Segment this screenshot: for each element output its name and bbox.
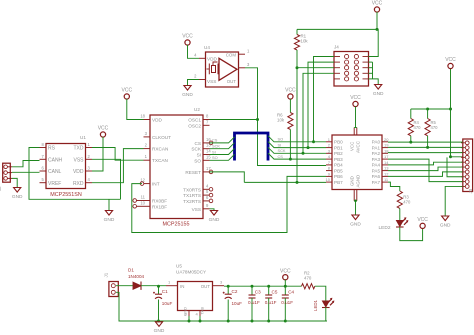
label SO right [278, 137, 284, 142]
wire D1 to U5 IN [141, 285, 166, 287]
svg-text:TAB: TAB [200, 307, 205, 315]
svg-text:10uF: 10uF [162, 301, 173, 306]
svg-text:VCC: VCC [122, 88, 133, 94]
svg-text:U2: U2 [194, 107, 200, 112]
svg-text:C2: C2 [232, 289, 238, 294]
svg-text:CLKOUT: CLKOUT [152, 135, 171, 140]
resistor R1 10k [294, 29, 308, 50]
svg-text:VSS: VSS [207, 79, 216, 84]
capacitor C4 0.1uF [281, 286, 294, 321]
svg-text:VREF: VREF [48, 181, 61, 187]
svg-text:15: 15 [206, 154, 211, 159]
wire PA6 to J3.7 [388, 172, 463, 177]
svg-text:VCC: VCC [349, 142, 354, 151]
wire VCC to rail [284, 280, 286, 287]
svg-text:GND: GND [12, 194, 23, 200]
svg-text:U5: U5 [176, 264, 182, 269]
svg-text:470: 470 [304, 276, 312, 281]
svg-text:0.u1F: 0.u1F [265, 300, 277, 305]
wire R4R5 rail [411, 108, 451, 110]
capacitor C2 10uF [223, 286, 242, 321]
svg-text:13: 13 [206, 143, 211, 148]
svg-text:13: 13 [384, 166, 389, 171]
wire RS to ground [29, 148, 121, 200]
svg-text:J2: J2 [0, 186, 2, 191]
svg-text:TX0RTS: TX0RTS [183, 187, 201, 192]
ground J4 [373, 85, 384, 97]
svg-text:GND: GND [349, 176, 354, 186]
svg-text:J4: J4 [334, 45, 339, 50]
svg-text:OUT: OUT [227, 79, 237, 84]
svg-text:VCC: VCC [285, 88, 296, 94]
regulator U5 UA78M05DCY [166, 264, 224, 317]
svg-text:PA2: PA2 [372, 151, 381, 156]
connector J2 [0, 163, 12, 191]
svg-text:VDD: VDD [207, 57, 218, 62]
wire VCC to U4 VDD [188, 45, 200, 59]
svg-text:GND: GND [350, 221, 361, 227]
junction J4 PB1 [307, 146, 310, 149]
capacitor C1 10uF [153, 286, 172, 321]
junction rail C2 [227, 320, 230, 323]
svg-text:CANH: CANH [48, 158, 63, 164]
wire LED2 to VCC [400, 227, 423, 241]
ground J2 [12, 188, 23, 200]
wire U2 RESET jog [210, 172, 245, 183]
wire U1 VSS down [92, 159, 121, 199]
wire R4 to PA0 [410, 136, 412, 142]
svg-text:SCK: SCK [212, 144, 220, 149]
svg-text:C1: C1 [162, 289, 168, 294]
wire bus to U3 PB0-PB3 [268, 136, 326, 159]
wire OUT rail [224, 285, 302, 287]
svg-text:470: 470 [414, 125, 422, 130]
wire U4 VSS to ground [188, 80, 200, 86]
svg-text:14: 14 [384, 160, 389, 165]
svg-text:12: 12 [140, 178, 145, 183]
svg-text:PB1: PB1 [334, 145, 343, 150]
svg-text:14: 14 [206, 149, 211, 154]
wire VCC to U3 [354, 107, 357, 128]
wire R3 to LED2 [399, 208, 401, 220]
vcc U2 [122, 88, 133, 100]
ground main [154, 322, 165, 334]
svg-text:VDD: VDD [152, 118, 163, 123]
wire R1 down to RESET row [296, 50, 298, 182]
svg-text:RXD: RXD [73, 181, 84, 187]
wire J3.8 stub [447, 157, 463, 176]
vcc U3 [350, 95, 361, 107]
svg-text:PB7: PB7 [334, 180, 343, 185]
svg-text:LED1: LED1 [313, 299, 318, 311]
vcc top rail [372, 1, 383, 13]
vcc R6 [285, 88, 296, 100]
svg-text:RESET: RESET [185, 170, 201, 175]
ground U4 [182, 86, 193, 98]
junction rail C4 [284, 320, 287, 323]
svg-text:VCC: VCC [417, 217, 428, 223]
svg-text:RX1BF: RX1BF [152, 204, 167, 209]
svg-text:PB5: PB5 [334, 168, 343, 173]
junction J4 PB2 [302, 152, 305, 155]
svg-text:10: 10 [326, 177, 331, 182]
junction C5 top [267, 285, 270, 288]
junction VCC J3 row [449, 155, 452, 158]
wire PA5 to J3.6 [388, 167, 463, 171]
svg-text:U1: U1 [80, 135, 86, 140]
svg-text:VDD: VDD [73, 169, 84, 175]
svg-text:VSS: VSS [192, 207, 201, 212]
svg-text:SI: SI [212, 149, 216, 154]
capacitor C3 0.1uF [248, 286, 261, 321]
wire R2 to LED1 [315, 286, 326, 301]
wire clock to U3 PB4 [258, 120, 327, 166]
svg-text:PA7: PA7 [372, 180, 381, 185]
svg-text:SI: SI [197, 153, 201, 158]
svg-text:17: 17 [384, 154, 389, 159]
wire R6 to CS row [289, 130, 291, 160]
label MCP25155 [163, 222, 190, 228]
svg-text:10uF: 10uF [232, 301, 243, 306]
wire J2.2 to CANL [12, 171, 40, 173]
resistor R4 470 [408, 109, 421, 136]
svg-text:PB2: PB2 [334, 151, 343, 156]
svg-text:VCC: VCC [98, 126, 109, 132]
svg-text:UA78M05DCY: UA78M05DCY [176, 270, 206, 275]
wire TXD to TXCAN [92, 148, 144, 161]
svg-text:12: 12 [384, 171, 389, 176]
label U3 VCC AVCC [349, 141, 360, 153]
svg-text:GND: GND [373, 91, 384, 97]
junction R6 CS [289, 158, 292, 161]
junction U3 gnd [354, 200, 357, 203]
svg-text:10k: 10k [277, 118, 285, 123]
wire U2 SPI to bus [210, 137, 235, 160]
svg-text:LED2: LED2 [379, 225, 391, 231]
svg-text:0.u1F: 0.u1F [281, 300, 293, 305]
svg-text:18: 18 [140, 114, 145, 119]
ground U1 [104, 211, 115, 223]
junction rail VCC [449, 108, 452, 111]
svg-text:GND: GND [209, 217, 220, 223]
svg-text:MCP25155: MCP25155 [163, 222, 190, 228]
svg-text:SI: SI [278, 142, 282, 147]
connector J3 [461, 139, 473, 194]
wire top VCC rail [297, 12, 377, 30]
svg-text:VSS: VSS [73, 158, 84, 164]
junction R5 PA1 [426, 146, 429, 149]
svg-text:PA5: PA5 [372, 168, 381, 173]
junction rail C5 [267, 320, 270, 323]
wire VCC to U1 VDD [92, 137, 103, 171]
wire U5 gnd stubs to rail [189, 316, 200, 321]
wire R5 to PA1 [427, 136, 429, 148]
LED LED1 [313, 298, 334, 311]
svg-text:SCK: SCK [278, 148, 286, 153]
wire J4 to SPI rows [297, 57, 334, 154]
oscillator U4 [194, 45, 250, 87]
svg-text:C5: C5 [272, 290, 278, 295]
svg-text:GND: GND [182, 92, 193, 98]
svg-text:CS: CS [194, 141, 201, 146]
IC U3 ATtiny26 [326, 128, 390, 201]
IC U1 MCP2551SN CAN transceiver [40, 135, 93, 189]
svg-text:U4: U4 [204, 45, 210, 50]
label SO left [212, 155, 218, 160]
svg-text:PB3: PB3 [334, 157, 343, 162]
svg-text:PB4: PB4 [334, 163, 343, 168]
wire U4 OUT to OSC1 [210, 68, 258, 120]
svg-text:VCC: VCC [372, 1, 383, 7]
wire PA2 to J3.3 [388, 152, 463, 154]
svg-text:INT: INT [152, 182, 160, 187]
svg-text:PA1: PA1 [372, 145, 381, 150]
svg-text:C3: C3 [255, 290, 261, 295]
svg-text:TX1RTS: TX1RTS [183, 193, 201, 198]
IC U2 MCP2515 CAN controller [133, 107, 213, 219]
LED LED2 [379, 217, 409, 231]
svg-text:J3: J3 [468, 188, 473, 193]
svg-text:CS: CS [212, 138, 218, 143]
label SI left [212, 149, 216, 154]
svg-text:SO: SO [212, 155, 218, 160]
wire PA7 to R3 [388, 182, 400, 191]
junction rail C1 [157, 320, 160, 323]
wire J3.10 to ground [445, 186, 462, 216]
label SCK left [212, 144, 220, 149]
label MCP2551SN [50, 192, 82, 198]
wire J4 grounds [369, 62, 379, 84]
connector J1 [104, 272, 119, 296]
svg-text:10k: 10k [301, 39, 309, 44]
wire PA4 to J3.5 [388, 162, 463, 165]
junction C4 VCC [284, 285, 287, 288]
svg-text:VCC: VCC [182, 34, 193, 40]
vcc LED2 [417, 217, 428, 228]
svg-text:470: 470 [431, 125, 439, 130]
svg-text:TXCAN: TXCAN [152, 158, 168, 163]
wire right VCC rail [451, 68, 463, 157]
svg-text:16: 16 [206, 137, 211, 142]
svg-text:CANL: CANL [48, 169, 62, 175]
svg-text:MCP2551SN: MCP2551SN [50, 192, 82, 198]
ground U2 [209, 211, 220, 223]
svg-text:20: 20 [384, 137, 389, 142]
junction C1 top [157, 285, 160, 288]
vcc U4 [182, 34, 193, 46]
wire J2.3 to ground [12, 178, 17, 187]
svg-text:J1: J1 [104, 272, 109, 277]
svg-text:0.u1F: 0.u1F [248, 300, 260, 305]
vcc U1 [98, 126, 109, 137]
svg-text:PA4: PA4 [372, 163, 381, 168]
svg-text:19: 19 [384, 143, 389, 148]
label U3 GND AGND [349, 175, 360, 188]
junction C2 top [227, 285, 230, 288]
resistor R2 470 [302, 271, 315, 289]
junction R4 PA0 [409, 141, 412, 144]
svg-text:SO: SO [278, 137, 284, 142]
wire PA0 to J3.1 [388, 141, 463, 143]
wire J1.1 to D1 [116, 285, 133, 287]
label CS right [278, 154, 284, 159]
svg-text:GND: GND [440, 222, 451, 228]
junction J4 PB0 [312, 140, 315, 143]
svg-text:AVCC: AVCC [355, 141, 360, 153]
svg-text:SO: SO [194, 158, 201, 163]
label SI right [278, 142, 282, 147]
junction rail U5a [188, 320, 191, 323]
wire PA1 to J3.2 [388, 146, 463, 148]
svg-text:PA6: PA6 [372, 174, 381, 179]
svg-text:RS: RS [48, 146, 56, 152]
ground J3 [440, 216, 451, 228]
junction C3 top [251, 285, 254, 288]
junction VCC J4 [376, 28, 379, 31]
wire J2.1 to CANH [12, 161, 40, 167]
ground U3 [350, 215, 361, 227]
svg-text:1N4004: 1N4004 [128, 274, 145, 279]
svg-text:RXCAN: RXCAN [152, 147, 168, 152]
wire PA3 to J3.9 [388, 159, 463, 182]
capacitor C5 0.1uF [265, 286, 278, 321]
junction OSC1 [256, 118, 259, 121]
wire ground rail [116, 292, 327, 321]
diode D1 1N4004 [128, 268, 145, 290]
junction rail C3 [251, 320, 254, 323]
svg-text:VCC: VCC [445, 57, 456, 63]
svg-text:IN: IN [180, 284, 184, 289]
wire VCC to J4 [369, 29, 379, 56]
svg-text:GND: GND [104, 217, 115, 223]
vcc right [445, 57, 456, 69]
bus SPI [235, 133, 269, 161]
connector J4 [334, 45, 369, 87]
resistor R5 470 [425, 109, 438, 136]
svg-text:PB6: PB6 [334, 174, 343, 179]
label CS left [212, 138, 218, 143]
wire U3 to ground [354, 201, 357, 215]
svg-text:11: 11 [141, 195, 146, 200]
svg-text:CS: CS [278, 154, 284, 159]
svg-text:TXD: TXD [74, 146, 84, 152]
svg-text:OUT: OUT [201, 284, 211, 289]
svg-text:470: 470 [403, 200, 411, 205]
svg-text:COM: COM [226, 53, 237, 58]
svg-text:D1: D1 [128, 268, 134, 273]
resistor R6 10k [277, 99, 293, 130]
label SCK right [278, 148, 286, 153]
svg-text:PA0: PA0 [372, 140, 381, 145]
svg-text:GND: GND [154, 328, 165, 334]
svg-text:RX0BF: RX0BF [152, 199, 167, 204]
svg-text:17: 17 [206, 166, 211, 171]
vcc main [280, 268, 291, 280]
svg-text:OSC2: OSC2 [188, 123, 201, 128]
resistor R3 470 [397, 191, 411, 208]
svg-text:10: 10 [140, 200, 145, 205]
svg-text:SCK: SCK [191, 147, 202, 152]
junction J4 reset [296, 66, 299, 69]
wire U2 INT to PB6 [132, 176, 326, 232]
svg-text:VCC: VCC [350, 95, 361, 101]
svg-text:AGND: AGND [355, 175, 360, 188]
svg-text:VCC: VCC [280, 268, 291, 274]
wire LED1 to rail [325, 307, 327, 321]
wire RXD to RXCAN [92, 149, 144, 183]
wire gnd stem U1 [108, 199, 110, 210]
svg-text:OSC1: OSC1 [188, 118, 201, 123]
svg-text:PB0: PB0 [334, 140, 343, 145]
junction rail R5 [426, 108, 429, 111]
junction rail U5b [199, 320, 202, 323]
svg-text:PA3: PA3 [372, 157, 381, 162]
svg-text:TX2RTS: TX2RTS [183, 199, 201, 204]
wire RESET row to PB7 [244, 181, 326, 183]
wire U2 VSS to ground [210, 209, 215, 211]
junction R1 RESET [296, 181, 299, 184]
wire VCC to U2 VDD [127, 99, 144, 120]
svg-text:C4: C4 [288, 290, 294, 295]
